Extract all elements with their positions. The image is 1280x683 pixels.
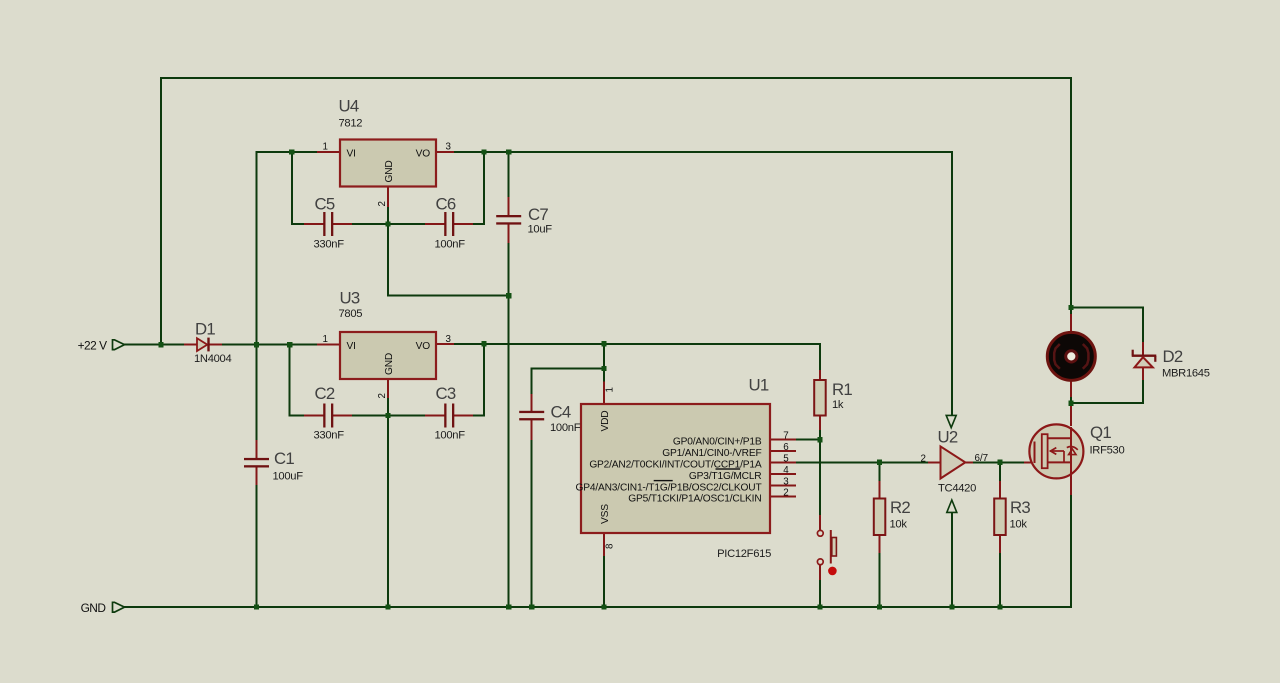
- svg-text:R1: R1: [832, 380, 852, 399]
- capacitor C7 leads: [508, 197, 510, 216]
- pin U2 output lead: [965, 461, 974, 463]
- wire 12V drop to U2 supply arrow: [951, 151, 953, 415]
- wire C2 riser: [289, 344, 291, 417]
- svg-text:5: 5: [783, 454, 789, 465]
- capacitor C5 plates: [323, 212, 325, 236]
- node U4 GND / C5 C6: [385, 221, 390, 226]
- wire D1 cathode to U3 VI: [221, 344, 318, 346]
- node C4 / VDD branch: [601, 366, 606, 371]
- svg-text:1N4004: 1N4004: [194, 353, 231, 365]
- pin U3 VO stub: [437, 343, 454, 345]
- node motor top: [1068, 305, 1073, 310]
- wire node column to U4 VI: [256, 152, 258, 345]
- svg-text:PIC12F615: PIC12F615: [717, 548, 771, 560]
- node ground rail R2: [877, 604, 882, 609]
- wire R3 bottom to ground rail: [999, 552, 1001, 607]
- diode D2 MBR1645 schottky: [1132, 350, 1157, 368]
- capacitor C2 leads: [304, 415, 323, 417]
- pin U1 6 stub: [771, 450, 796, 452]
- svg-text:1: 1: [605, 387, 616, 392]
- svg-text:10k: 10k: [1010, 519, 1028, 531]
- svg-text:R2: R2: [890, 498, 910, 517]
- wire R3 top: [999, 461, 1001, 482]
- capacitor C1 plates: [244, 458, 269, 460]
- svg-text:U2: U2: [938, 428, 958, 447]
- pin U1 5 stub: [771, 462, 796, 464]
- svg-text:2: 2: [921, 453, 926, 464]
- switch actuator body: [832, 538, 837, 557]
- switch button circles: [817, 530, 823, 536]
- wire R2 bottom to ground rail: [879, 552, 881, 607]
- svg-text:VDD: VDD: [600, 411, 611, 432]
- pin Q1 source lead: [1070, 477, 1072, 495]
- capacitor C5 leads: [304, 223, 323, 225]
- wire U3 GND stub green: [387, 397, 389, 416]
- node 5V drop on rail: [601, 341, 606, 346]
- node C2 riser on +22V line: [287, 342, 292, 347]
- svg-text:1: 1: [323, 142, 328, 153]
- wire C6 riser: [483, 151, 485, 224]
- node ground rail VSS: [601, 604, 606, 609]
- svg-text:VI: VI: [347, 341, 356, 352]
- node ground rail R3: [997, 604, 1002, 609]
- wire 5V rail: [453, 343, 820, 345]
- diode D2 leads: [1142, 342, 1144, 355]
- wire motor top green: [1070, 308, 1072, 316]
- capacitor C6 leads: [425, 223, 444, 225]
- node +22V left column: [158, 342, 163, 347]
- wire right column from top rail to motor: [1070, 77, 1072, 309]
- svg-text:100uF: 100uF: [273, 471, 304, 483]
- wire C4 branch horizontal: [531, 368, 605, 370]
- svg-text:10uF: 10uF: [528, 224, 553, 236]
- pin U4 GND stub: [387, 187, 389, 207]
- wire D2 top: [1142, 307, 1144, 344]
- node pin7 / R1: [817, 437, 822, 442]
- svg-text:4: 4: [783, 465, 789, 476]
- svg-text:1k: 1k: [832, 399, 844, 411]
- svg-text:C2: C2: [315, 384, 335, 403]
- wire C5 to U4 GND node: [351, 223, 425, 225]
- svg-text:U1: U1: [749, 376, 769, 395]
- regulator U4 body 7812: [340, 140, 436, 187]
- node D1 cathode: [254, 342, 259, 347]
- wire motor top node to D2 column: [1070, 307, 1144, 309]
- svg-text:C4: C4: [551, 403, 571, 422]
- wire C5 lead left green: [291, 223, 305, 225]
- svg-text:C7: C7: [528, 205, 548, 224]
- node C7 top on 12V rail: [506, 149, 511, 154]
- svg-text:VO: VO: [416, 341, 431, 352]
- svg-text:GND: GND: [384, 353, 395, 375]
- svg-text:7805: 7805: [339, 308, 363, 320]
- node R2 top on GP2 row: [877, 460, 882, 465]
- svg-text:3: 3: [446, 334, 452, 345]
- capacitor C4 leads: [531, 394, 533, 412]
- svg-text:6/7: 6/7: [975, 453, 989, 464]
- transistor Q1 IRF530 mosfet: [1029, 424, 1083, 478]
- capacitor C6 plates: [444, 212, 446, 236]
- svg-text:330nF: 330nF: [314, 239, 345, 251]
- chip U1 body PIC12F615: [581, 404, 770, 533]
- svg-text:VO: VO: [416, 149, 431, 160]
- svg-text:10k: 10k: [890, 519, 908, 531]
- capacitor C7 plates: [496, 215, 521, 217]
- svg-text:7: 7: [783, 431, 788, 442]
- capacitor C3 leads: [425, 415, 444, 417]
- terminal GND: [113, 602, 125, 612]
- svg-text:GP1/AN1/CIN0-/VREF: GP1/AN1/CIN0-/VREF: [662, 448, 761, 459]
- wire C5 riser: [291, 151, 293, 224]
- wire U2 GND arrow to ground rail: [951, 512, 953, 607]
- svg-text:C1: C1: [274, 449, 294, 468]
- pin U3 GND stub: [387, 379, 389, 398]
- diode D1 leads: [184, 344, 198, 346]
- capacitor C3 plates: [444, 404, 446, 428]
- pin U1 4 stub: [771, 473, 796, 475]
- regulator U3 body 7805: [340, 332, 436, 379]
- svg-text:GND: GND: [81, 601, 107, 615]
- wire R1 top column: [819, 343, 821, 371]
- pin U1 VSS stub: [603, 534, 605, 556]
- node U3 GND / C2 C3: [385, 413, 390, 418]
- svg-text:100nF: 100nF: [435, 430, 466, 442]
- resistor R3 leads: [999, 481, 1001, 499]
- power arrow U2 VDD (down): [946, 415, 956, 427]
- svg-text:2: 2: [377, 201, 388, 206]
- wire left column to +22V line: [160, 77, 162, 345]
- wire C1 top: [256, 345, 258, 441]
- node ground rail C7: [506, 604, 511, 609]
- wire D2 bottom: [1142, 379, 1144, 404]
- svg-text:U4: U4: [339, 97, 359, 116]
- pin U1 7 stub: [771, 439, 796, 441]
- wire C1 bottom to ground rail: [256, 484, 258, 607]
- terminal +22V input: [113, 340, 125, 350]
- wire C3 riser: [483, 343, 485, 417]
- capacitor C2 plates: [323, 404, 325, 428]
- node C5 riser on U4 VI: [289, 149, 294, 154]
- switch leads: [819, 515, 821, 531]
- svg-text:C5: C5: [315, 195, 335, 214]
- svg-text:100nF: 100nF: [435, 239, 466, 251]
- capacitor C1 leads: [256, 440, 258, 459]
- svg-text:8: 8: [605, 543, 616, 549]
- switch red marker dot: [828, 567, 837, 576]
- resistor R1 body: [814, 380, 826, 416]
- svg-text:GND: GND: [384, 160, 395, 182]
- wire top rail +22V: [160, 77, 1072, 79]
- node ground rail U2 GND: [949, 604, 954, 609]
- wire Q1 source to ground rail: [1070, 494, 1072, 608]
- overbar MCLR: [716, 468, 741, 469]
- wire U3 GND node to C3: [472, 415, 485, 417]
- capacitor C4 plates: [519, 411, 544, 413]
- svg-text:C3: C3: [436, 384, 456, 403]
- svg-text:2: 2: [783, 488, 788, 499]
- wire U4 GND stub green: [387, 206, 389, 225]
- node C3 riser on 5V rail: [481, 341, 486, 346]
- node C6 riser on 12V rail: [481, 149, 486, 154]
- wire +22V terminal to D1: [124, 344, 185, 346]
- pin Q1 gate lead: [1024, 461, 1034, 463]
- diode D1 symbol: [197, 338, 209, 352]
- node R3 top on U2 output: [997, 460, 1002, 465]
- pin U2 input lead: [928, 461, 941, 463]
- wire 5V drop to C4 branch: [603, 343, 605, 369]
- svg-text:MBR1645: MBR1645: [1162, 368, 1210, 380]
- svg-text:2: 2: [377, 393, 388, 398]
- wire pin5 GP2 output row: [795, 461, 929, 463]
- svg-text:3: 3: [783, 476, 789, 487]
- motor symbol: [1047, 332, 1095, 380]
- svg-text:+22 V: +22 V: [78, 339, 107, 353]
- svg-text:IRF530: IRF530: [1090, 445, 1125, 457]
- resistor R1 leads: [819, 370, 821, 380]
- wire motor bottom green: [1070, 396, 1072, 404]
- wire U4 GND drop: [387, 224, 389, 297]
- resistor R2 leads: [879, 481, 881, 499]
- wire button bottom to ground rail: [819, 579, 821, 607]
- wire U4 GND horizontal to C7 column: [387, 295, 509, 297]
- wire ground rail: [124, 606, 1072, 608]
- wire pin7 to R1 column: [795, 439, 821, 441]
- svg-text:330nF: 330nF: [314, 430, 345, 442]
- wire R1 bottom to pin7 node and button: [819, 429, 821, 516]
- buffer U2 TC4420 triangle: [941, 446, 966, 478]
- wire U4 VO rail 12V: [453, 151, 953, 153]
- wire R2 top: [879, 461, 881, 482]
- pin U1 2 stub: [771, 496, 796, 498]
- svg-text:TC4420: TC4420: [938, 483, 976, 495]
- node ground rail button: [817, 604, 822, 609]
- svg-text:C6: C6: [436, 195, 456, 214]
- wire U4 GND node to C6: [472, 223, 485, 225]
- svg-text:D1: D1: [195, 320, 215, 339]
- motor leads: [1070, 314, 1072, 334]
- node ground rail C4: [529, 604, 534, 609]
- pin U3 VI stub: [317, 344, 339, 346]
- overbar T1G: [654, 480, 673, 481]
- pin U1 3 stub: [771, 484, 796, 486]
- wire C7 bottom to ground rail: [508, 242, 510, 607]
- wire C7 top: [508, 151, 510, 198]
- pin U4 VO stub: [437, 151, 454, 153]
- svg-text:VSS: VSS: [600, 504, 611, 524]
- resistor R3 body: [994, 499, 1006, 536]
- wire U2 output to R3 node and Q1 gate: [972, 461, 1025, 463]
- pin U4 VI stub: [317, 151, 339, 153]
- svg-text:6: 6: [783, 442, 789, 453]
- svg-text:GP3/T1G/MCLR: GP3/T1G/MCLR: [689, 471, 762, 482]
- svg-text:100nF: 100nF: [550, 422, 581, 434]
- pin Q1 drain lead: [1070, 402, 1072, 426]
- wire U4 VI segment: [256, 151, 319, 153]
- switch actuator bar: [830, 530, 832, 564]
- svg-text:D2: D2: [1163, 347, 1183, 366]
- pin U1 VDD stub: [603, 382, 605, 404]
- svg-text:7812: 7812: [339, 118, 363, 130]
- wire U1 VSS to ground rail: [603, 555, 605, 607]
- power arrow U2 GND (up): [947, 500, 957, 512]
- wire C4 bottom to ground rail: [531, 439, 533, 607]
- node ground rail U3 GND: [385, 604, 390, 609]
- node motor bottom / D2 / drain: [1068, 401, 1073, 406]
- wire D2 bottom to motor bottom node: [1070, 402, 1144, 404]
- wire U3 GND drop to ground rail: [387, 416, 389, 608]
- wire U1 VDD drop green: [603, 369, 605, 383]
- svg-text:U3: U3: [340, 289, 360, 308]
- svg-text:GP0/AN0/CIN+/P1B: GP0/AN0/CIN+/P1B: [673, 437, 762, 448]
- wire C4 top: [531, 368, 533, 396]
- svg-text:VI: VI: [347, 149, 356, 160]
- svg-text:R3: R3: [1010, 498, 1030, 517]
- svg-text:1: 1: [323, 334, 328, 345]
- wire C2 lead left green: [289, 415, 305, 417]
- svg-text:3: 3: [446, 142, 452, 153]
- svg-text:GP4/AN3/CIN1-/T1G/P1B/OSC2/CLK: GP4/AN3/CIN1-/T1G/P1B/OSC2/CLKOUT: [576, 482, 762, 493]
- node ground rail C1: [254, 604, 259, 609]
- svg-text:Q1: Q1: [1090, 423, 1111, 442]
- node U4 GND joins C7 column: [506, 293, 511, 298]
- resistor R2 body: [874, 499, 886, 536]
- svg-text:GP5/T1CKI/P1A/OSC1/CLKIN: GP5/T1CKI/P1A/OSC1/CLKIN: [628, 494, 761, 505]
- wire C2 to U3 GND node: [351, 415, 425, 417]
